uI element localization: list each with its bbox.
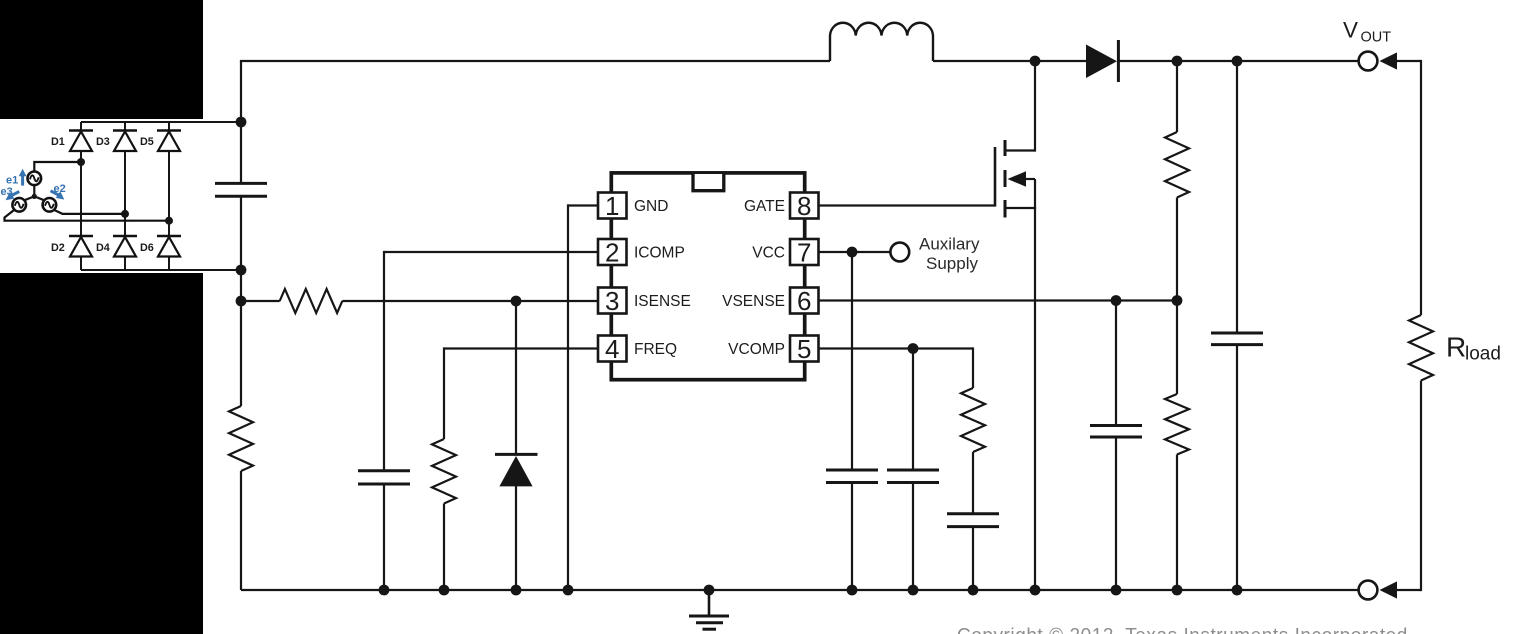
node comp ground: [968, 585, 979, 596]
pin 4 square: [598, 336, 627, 362]
label D5: [140, 136, 154, 148]
node rectifier plus: [236, 117, 247, 128]
wire rectifier bottom rail: [81, 269, 241, 271]
wire divider middle: [1176, 198, 1178, 395]
ground: [689, 585, 729, 630]
wire wye center to e3 source: [24, 196, 34, 200]
label VCOMP: [728, 341, 785, 358]
wire pin8 gate: [819, 204, 996, 206]
label ICOMP: [634, 245, 685, 262]
capacitor C7 output: [1211, 333, 1263, 345]
pin 3 number: [605, 286, 619, 316]
svg-text:2: 2: [605, 238, 619, 268]
capacitor C2 icomp: [358, 471, 410, 484]
wire wye center to e2 source: [34, 196, 44, 200]
node divider ground: [1172, 585, 1183, 596]
diode D7 clamp: [495, 454, 538, 486]
inductor L1: [830, 23, 933, 61]
arrow e3: [6, 192, 20, 201]
wire left rail middle: [240, 196, 242, 406]
svg-text:GATE: GATE: [744, 198, 785, 215]
label Rload: [1446, 332, 1501, 365]
label GND: [634, 198, 668, 215]
wire isense left: [241, 300, 280, 302]
svg-text:VCC: VCC: [752, 245, 785, 262]
wire diode D7 lower: [515, 486, 517, 590]
svg-text:R: R: [1446, 332, 1466, 363]
wire e3 to bottom bus: [5, 210, 170, 221]
label e2: [54, 183, 66, 195]
wire e1 to wye center: [33, 185, 35, 196]
arrow into return: [1380, 581, 1422, 598]
wire rectifier column 2: [124, 122, 126, 270]
node vsense cap tap: [1111, 295, 1122, 306]
diode D2: [69, 236, 93, 257]
wire vcc bypass upper: [851, 252, 853, 470]
svg-text:Auxilary: Auxilary: [919, 235, 980, 254]
op-amp U1 body: [611, 173, 804, 380]
black side panel: [0, 0, 203, 634]
svg-text:Supply: Supply: [926, 254, 978, 273]
wire right rail lower: [1420, 381, 1422, 592]
capacitor C5 comp: [947, 514, 999, 527]
node D7 ground: [511, 585, 522, 596]
pin 4 number: [605, 334, 619, 364]
svg-text:1: 1: [605, 191, 619, 221]
node C2 ground: [379, 585, 390, 596]
resistor Rload: [1409, 315, 1433, 381]
svg-text:VCOMP: VCOMP: [728, 341, 785, 358]
label FREQ: [634, 341, 677, 358]
wire pin4 vertical lower: [443, 504, 445, 591]
pin 2 number: [605, 238, 619, 268]
label e1: [6, 175, 18, 187]
diode D5: [157, 131, 181, 152]
svg-text:ISENSE: ISENSE: [634, 293, 691, 310]
svg-text:Copyright © 2012, Texas Instru: Copyright © 2012, Texas Instruments Inco…: [957, 626, 1408, 634]
svg-text:D6: D6: [140, 242, 154, 254]
pin 7 square: [790, 239, 819, 265]
wire vsense cap branch upper: [1115, 301, 1117, 426]
wire pin1 horizontal: [568, 204, 598, 206]
svg-text:GND: GND: [634, 198, 668, 215]
wire right rail upper: [1420, 60, 1422, 315]
capacitor C1 input filter: [215, 183, 267, 196]
capacitor C3 vcc: [826, 470, 878, 483]
node divider top: [1172, 56, 1183, 67]
pin 5 number: [797, 334, 811, 364]
resistor R3 freq: [432, 439, 456, 504]
diode D8 rectifier: [1086, 40, 1118, 82]
node C4 ground: [908, 585, 919, 596]
node Q1 source ground: [1030, 585, 1041, 596]
node rectifier minus: [236, 265, 247, 276]
resistor R1 left rail: [229, 406, 253, 471]
wire left rail lower: [240, 471, 242, 590]
label VCC: [752, 245, 785, 262]
label GATE: [744, 198, 785, 215]
wire diode D7 upper: [515, 301, 517, 454]
wire top rail left: [240, 60, 830, 62]
pin 7 number: [797, 238, 811, 268]
svg-text:7: 7: [797, 238, 811, 268]
wire rectifier top rail: [81, 121, 241, 123]
wire top rail right: [1117, 60, 1359, 62]
transistor Q1 source tap: [1005, 207, 1036, 209]
wire pin2 horizontal: [384, 251, 598, 253]
label D6: [140, 242, 154, 254]
wire rectifier column 1: [80, 122, 82, 270]
wire isense right: [342, 300, 598, 302]
svg-text:3: 3: [605, 286, 619, 316]
svg-text:e1: e1: [6, 175, 18, 187]
arrow e1: [19, 169, 27, 186]
resistor R4 comp: [961, 388, 985, 452]
wire divider lower: [1176, 455, 1178, 591]
node isense diode tap: [511, 296, 522, 307]
svg-text:e2: e2: [54, 183, 66, 195]
svg-text:6: 6: [797, 286, 811, 316]
wire pin7 vcc: [819, 251, 891, 253]
terminal auxiliary supply: [890, 243, 909, 262]
wire vcc bypass lower: [851, 483, 853, 591]
wire comp branch mid: [972, 452, 974, 514]
wire vsense cap branch lower: [1115, 437, 1117, 590]
diode D1: [69, 131, 93, 152]
diode D6: [157, 236, 181, 257]
node wye center: [32, 194, 37, 199]
svg-text:OUT: OUT: [1361, 30, 1392, 46]
capacitor C4 vcomp: [887, 470, 939, 483]
arrow e2: [51, 191, 65, 200]
pin 1 number: [605, 191, 619, 221]
pin 6 square: [790, 288, 819, 314]
terminal output return: [1359, 581, 1378, 600]
node C7 ground: [1232, 585, 1243, 596]
label D3: [96, 136, 110, 148]
svg-text:load: load: [1465, 344, 1501, 365]
wire rectifier column 3: [168, 122, 170, 270]
node vcomp junction: [908, 343, 919, 354]
pin 8 square: [790, 193, 819, 219]
label D2: [51, 242, 65, 254]
diode D3: [113, 131, 137, 152]
svg-text:5: 5: [797, 334, 811, 364]
AC source e2: [43, 198, 57, 212]
svg-text:4: 4: [605, 334, 619, 364]
wire e2 to column D3/D4: [54, 210, 125, 214]
svg-text:FREQ: FREQ: [634, 341, 677, 358]
wire left rail upper: [240, 61, 242, 183]
wire pin6 vsense: [819, 299, 1178, 301]
node switch node: [1030, 56, 1041, 67]
node vcc junction: [847, 247, 858, 258]
wire output cap upper: [1236, 61, 1238, 333]
resistor R2 isense: [280, 289, 343, 313]
node C6 ground: [1111, 585, 1122, 596]
svg-text:V: V: [1343, 18, 1358, 43]
wire e1 to column D1/D2: [34, 162, 81, 172]
label copyright: [957, 626, 1408, 634]
svg-text:8: 8: [797, 191, 811, 221]
capacitor C6 vsense: [1090, 426, 1142, 438]
AC source e3: [12, 198, 26, 212]
svg-text:VSENSE: VSENSE: [722, 293, 785, 310]
svg-text:D4: D4: [96, 242, 110, 254]
node output cap top: [1232, 56, 1243, 67]
wire comp branch upper: [972, 347, 974, 388]
label VSENSE: [722, 293, 785, 310]
wire bottom rail: [241, 589, 1359, 591]
pin 2 square: [598, 239, 627, 265]
wire output cap lower: [1236, 345, 1238, 590]
pin 3 square: [598, 288, 627, 314]
pin 8 number: [797, 191, 811, 221]
pin 1 square: [598, 193, 627, 219]
node pin1 ground: [563, 585, 574, 596]
terminal VOUT: [1359, 52, 1378, 71]
resistor R5 divider top: [1165, 132, 1189, 198]
node vsense divider tap: [1172, 295, 1183, 306]
svg-text:D3: D3: [96, 136, 110, 148]
label e3: [1, 186, 13, 198]
transistor Q1 channel: [1004, 140, 1007, 218]
diode D4: [113, 236, 137, 257]
pin 5 square: [790, 336, 819, 362]
svg-text:D2: D2: [51, 242, 65, 254]
label ISENSE: [634, 293, 691, 310]
svg-text:ICOMP: ICOMP: [634, 245, 685, 262]
node isense tap: [236, 296, 247, 307]
label D1: [51, 136, 65, 148]
label VOUT: [1343, 18, 1391, 46]
wire pin4 vertical upper: [443, 347, 445, 439]
node R3 ground: [439, 585, 450, 596]
wire pin1 vertical: [567, 204, 569, 590]
label auxiliary supply: [919, 235, 980, 274]
wire comp branch lower: [972, 527, 974, 590]
transistor Q1 body arrow: [1008, 171, 1036, 186]
AC source e1: [28, 172, 42, 186]
wire vcomp cap lower: [912, 483, 914, 591]
node phase C junction: [165, 217, 173, 225]
svg-text:D5: D5: [140, 136, 154, 148]
wire pin4 horizontal: [444, 347, 598, 349]
node phase A junction: [77, 158, 85, 166]
svg-text:e3: e3: [1, 186, 13, 198]
label D4: [96, 242, 110, 254]
wire vcomp cap upper: [912, 349, 914, 471]
pin 6 number: [797, 286, 811, 316]
wire divider upper: [1176, 61, 1178, 132]
wire top rail mid: [933, 60, 1086, 62]
wire pin5 vcomp: [819, 347, 974, 349]
wire pin2 vertical lower: [383, 484, 385, 590]
wire Q1 source down: [1034, 179, 1036, 590]
wire pin2 vertical upper: [383, 251, 385, 471]
rectifier white inset: [0, 119, 203, 273]
resistor R6 divider bottom: [1165, 394, 1189, 455]
arrow into VOUT: [1380, 52, 1422, 69]
node C3 ground: [847, 585, 858, 596]
transistor Q1 gate bar: [994, 147, 997, 207]
node phase B junction: [121, 210, 129, 218]
transistor Q1 drain tap: [1005, 61, 1035, 152]
svg-text:D1: D1: [51, 136, 65, 148]
U1 notch: [693, 174, 724, 191]
